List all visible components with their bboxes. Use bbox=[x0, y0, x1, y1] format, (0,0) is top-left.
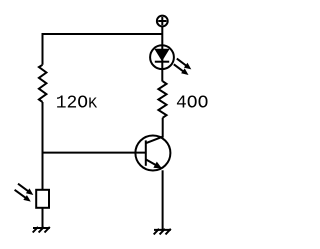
resistor R1 120K bbox=[39, 65, 47, 102]
incident light arrows bbox=[15, 184, 34, 202]
transistor Q1 bbox=[135, 136, 170, 171]
ground (left) bbox=[33, 227, 50, 233]
wire: collector bbox=[162, 118, 164, 138]
photoresistor (LDR) bbox=[36, 190, 49, 208]
wire: photocell to ground bbox=[42, 208, 44, 227]
resistor R2 400 bbox=[158, 81, 166, 118]
ground (right) bbox=[154, 229, 171, 235]
power supply + terminal bbox=[157, 16, 168, 27]
wire: base bbox=[43, 152, 146, 154]
wire: supply down through LED to resistor top bbox=[161, 27, 163, 82]
LED D1 bbox=[150, 45, 174, 69]
svg-text:4OO: 4OO bbox=[176, 94, 208, 114]
wire: emitter to ground bbox=[162, 170, 164, 229]
wire: top rail from left corner to supply bbox=[43, 34, 163, 65]
svg-text:12OK: 12OK bbox=[56, 94, 97, 114]
LED emission arrows bbox=[174, 59, 192, 75]
wire: left rail below resistor to photocell bbox=[42, 102, 44, 190]
